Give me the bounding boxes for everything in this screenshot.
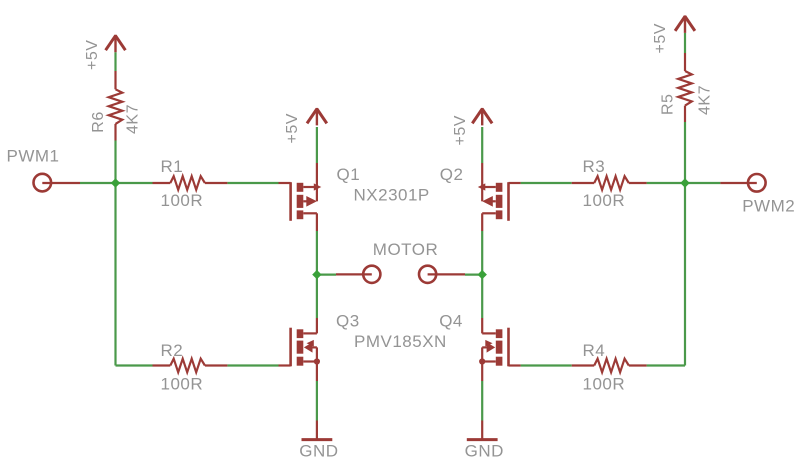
junction left PWM1 node [111, 178, 120, 187]
pin PWM1 [34, 174, 81, 192]
svg-text:NX2301P: NX2301P [354, 186, 430, 205]
svg-text:GND: GND [299, 442, 338, 461]
wire Q3 source to GND [316, 381, 318, 421]
wire Q2 drain to motor junction right [481, 231, 483, 318]
svg-text:R1: R1 [161, 157, 184, 176]
junction Q4 source-bulk [479, 358, 485, 364]
wire +5V to Q1 source [316, 127, 318, 163]
+5V supply above Q2 [472, 108, 492, 126]
svg-text:PMV185XN: PMV185XN [354, 332, 447, 351]
wire +5V to R5 [684, 33, 686, 53]
svg-text:R2: R2 [161, 341, 184, 360]
svg-text:Q3: Q3 [336, 312, 360, 331]
transistor Q1 [279, 163, 322, 231]
svg-text:100R: 100R [161, 191, 204, 210]
svg-text:+5V: +5V [284, 113, 301, 143]
transistor Q2 [478, 163, 521, 231]
wire +5V to Q2 source [481, 127, 483, 163]
svg-text:+5V: +5V [84, 40, 101, 70]
transistor Q3 [279, 318, 317, 381]
wire Q1 drain to motor junction [316, 231, 318, 318]
junction Q3 source-bulk [314, 358, 320, 364]
ground right [467, 421, 498, 440]
wire +5V to R6 [114, 52, 116, 71]
wire motor junction right to MOTOR pin [465, 274, 482, 276]
svg-text:MOTOR: MOTOR [373, 240, 438, 259]
svg-text:100R: 100R [583, 375, 626, 394]
svg-text:100R: 100R [161, 375, 204, 394]
svg-text:+5V: +5V [452, 115, 469, 145]
svg-text:R4: R4 [583, 341, 606, 360]
junction motor node left [312, 270, 321, 279]
wire right junction to PWM2 [685, 182, 720, 184]
svg-text:Q1: Q1 [337, 165, 361, 184]
ground left [302, 421, 333, 440]
pin PWM2 [720, 174, 765, 192]
wire right vertical junction to R4 row [684, 183, 686, 366]
transistor Q4 [482, 318, 520, 381]
svg-text:4K7: 4K7 [125, 104, 142, 134]
svg-text:Q4: Q4 [439, 312, 463, 331]
junction right PWM2 node [680, 178, 689, 187]
wire R1 to Q1 gate [227, 182, 278, 184]
svg-text:GND: GND [465, 442, 504, 461]
wire R4 to right vertical [647, 364, 685, 366]
svg-text:PWM2: PWM2 [742, 197, 795, 216]
wire left vertical junction to R2 row [114, 183, 116, 366]
wire Q4 gate to R4 [521, 364, 572, 366]
wire PWM1 net horizontal green [80, 182, 153, 184]
svg-text:R3: R3 [583, 157, 606, 176]
pin MOTOR right [419, 266, 465, 283]
svg-text:R6: R6 [90, 111, 107, 132]
+5V supply above R6 [106, 35, 126, 53]
wire Q4 source to GND [481, 381, 483, 421]
pin MOTOR left [336, 266, 380, 283]
resistor R4 [572, 359, 647, 373]
resistor R1 [153, 176, 228, 190]
wire R2 to Q3 gate [227, 364, 278, 366]
wire Q2 gate to R3 [521, 182, 572, 184]
svg-text:4K7: 4K7 [697, 85, 714, 115]
+5V supply above Q1 [307, 108, 327, 126]
svg-text:R5: R5 [660, 94, 677, 115]
resistor R6 [109, 71, 123, 141]
svg-text:Q2: Q2 [440, 165, 464, 184]
resistor R5 [678, 53, 692, 122]
wire motor junction to MOTOR pin [317, 274, 336, 276]
svg-text:PWM1: PWM1 [7, 147, 60, 166]
resistor R3 [572, 176, 647, 190]
wire left to R2 [116, 364, 153, 366]
resistor R2 [153, 359, 228, 373]
junction motor node right [478, 270, 487, 279]
wire R5 to right junction [684, 122, 686, 183]
svg-text:+5V: +5V [652, 23, 669, 53]
wire R6 to junction [114, 141, 116, 184]
wire R3 to right junction [647, 182, 685, 184]
+5V supply above R5 [675, 15, 695, 33]
svg-text:100R: 100R [583, 191, 626, 210]
